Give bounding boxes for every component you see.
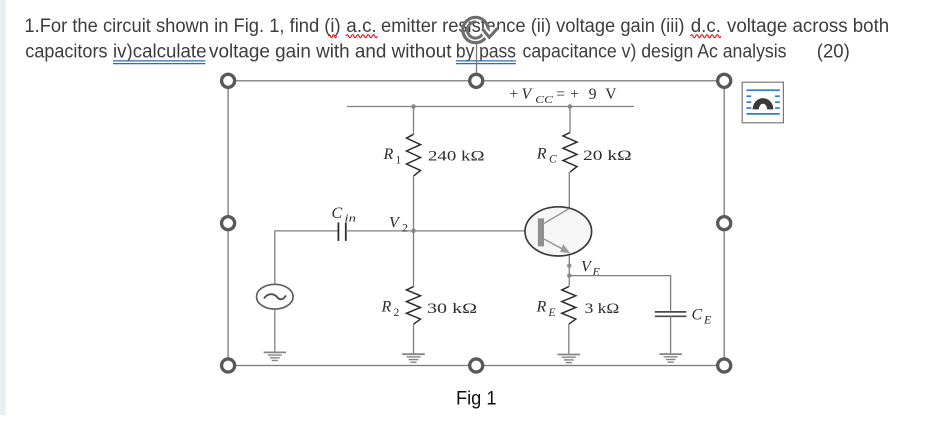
resistor RC: [563, 132, 577, 172]
selection handle mid-right: [718, 217, 731, 230]
wire rail to RC: [569, 107, 571, 133]
svg-text:E: E: [703, 313, 712, 327]
wire R1 to node V2: [413, 176, 415, 231]
label R2: [381, 299, 400, 320]
svg-text:a.c.: a.c.: [346, 16, 377, 37]
wire rail to R1: [413, 107, 415, 135]
wire CE to ground: [670, 316, 672, 354]
svg-text:C: C: [549, 154, 557, 166]
svg-text:capacitors: capacitors: [25, 42, 107, 63]
wire RE to ground: [568, 324, 570, 354]
selection border: [228, 81, 724, 366]
svg-text:3 kΩ: 3 kΩ: [585, 301, 620, 317]
svg-text:capacitance v) design Ac analy: capacitance v) design Ac analysis: [523, 42, 787, 63]
svg-text:CC: CC: [535, 94, 553, 106]
node VE dot lower: [567, 273, 571, 277]
svg-text:V: V: [605, 86, 617, 103]
rotation handle connector: [476, 44, 478, 81]
label RC: [536, 146, 557, 166]
node VE dot upper: [567, 264, 571, 268]
selection handle bottom-center: [470, 359, 483, 372]
capacitor Cin: [338, 222, 345, 241]
rotation handle icon: [463, 17, 498, 42]
svg-text:voltage across both: voltage across both: [727, 16, 889, 37]
spellcheck squiggle under a.c.: [346, 35, 377, 38]
wire R2 to ground: [413, 324, 415, 354]
svg-text:R: R: [536, 299, 547, 316]
svg-text:R: R: [383, 146, 394, 163]
svg-text:2: 2: [402, 221, 408, 235]
svg-text:9: 9: [589, 86, 597, 103]
question text line 2: [25, 42, 850, 63]
svg-text:Fig 1: Fig 1: [456, 389, 497, 410]
capacitor CE: [655, 312, 687, 316]
selection handle bottom-left: [222, 359, 235, 372]
wire Vcc top rail: [347, 106, 634, 108]
label +VCC = +9 V: [509, 86, 617, 106]
svg-text:+: +: [570, 86, 579, 103]
grammar double underline under iv)calculate: [113, 61, 206, 64]
svg-text:emitter resistance (ii) voltag: emitter resistance (ii) voltage gain (ii…: [381, 16, 685, 37]
wire Cin to base (through node V2): [346, 230, 538, 232]
label R1: [383, 146, 402, 167]
layout options button: [742, 82, 783, 123]
resistor RE: [562, 287, 576, 325]
svg-text:C: C: [692, 307, 703, 324]
ground below source: [264, 352, 287, 360]
selection handle mid-left: [222, 217, 235, 230]
node V2 dot: [411, 228, 416, 233]
label VE: [581, 259, 601, 279]
wire VE to CE: [569, 276, 670, 311]
svg-text:V: V: [522, 86, 533, 103]
wire source to input node: [275, 231, 338, 284]
svg-text:R: R: [536, 146, 547, 163]
wire emitter down: [568, 256, 570, 287]
svg-text:1: 1: [396, 155, 402, 167]
grammar double underline under by pass: [456, 61, 516, 64]
selection handle top-right: [718, 74, 731, 87]
selection handle bottom-right: [718, 359, 731, 372]
transistor Q1: [525, 207, 592, 256]
svg-text:=: =: [556, 86, 565, 103]
svg-text:2: 2: [394, 307, 400, 319]
svg-text:R: R: [381, 299, 392, 316]
svg-text:240 kΩ: 240 kΩ: [428, 149, 485, 165]
label V2: [389, 215, 408, 235]
ground below RE: [558, 355, 581, 363]
selection handle top-center: [470, 74, 483, 87]
svg-text:+: +: [509, 86, 518, 103]
svg-text:30 kΩ: 30 kΩ: [427, 301, 477, 317]
svg-text:1.For the circuit shown in Fig: 1.For the circuit shown in Fig. 1, find …: [24, 16, 340, 37]
ac source Vs: [257, 284, 294, 309]
svg-text:in: in: [345, 213, 357, 225]
svg-text:(20): (20): [817, 42, 850, 63]
wire RC to collector: [568, 172, 570, 209]
resistor R1: [407, 134, 421, 176]
node junction dot on rail (RC branch): [568, 104, 573, 109]
svg-text:voltage gain with and without: voltage gain with and without: [209, 42, 452, 63]
svg-text:by pass: by pass: [456, 42, 516, 63]
svg-text:E: E: [592, 265, 601, 279]
question text line 1: [24, 16, 889, 37]
label CE: [692, 307, 713, 327]
svg-text:E: E: [548, 307, 556, 319]
ground below R2: [402, 354, 425, 362]
label Cin: [332, 205, 357, 225]
page left margin strip: [0, 0, 5, 415]
node junction dot on rail (R1 branch): [411, 104, 416, 109]
ground below CE: [659, 354, 682, 362]
svg-text:iv)calculate: iv)calculate: [113, 42, 207, 63]
resistor R2: [407, 287, 421, 325]
selection handle top-left: [222, 74, 235, 87]
wire source to ground: [274, 309, 276, 352]
spellcheck squiggle under d.c.: [691, 35, 721, 38]
svg-text:d.c.: d.c.: [691, 16, 721, 37]
label RE: [536, 299, 556, 320]
svg-text:20 kΩ: 20 kΩ: [583, 148, 632, 164]
spellcheck squiggle under (i): [329, 35, 337, 38]
svg-text:C: C: [332, 205, 343, 222]
wire V2 to R2: [413, 231, 415, 287]
